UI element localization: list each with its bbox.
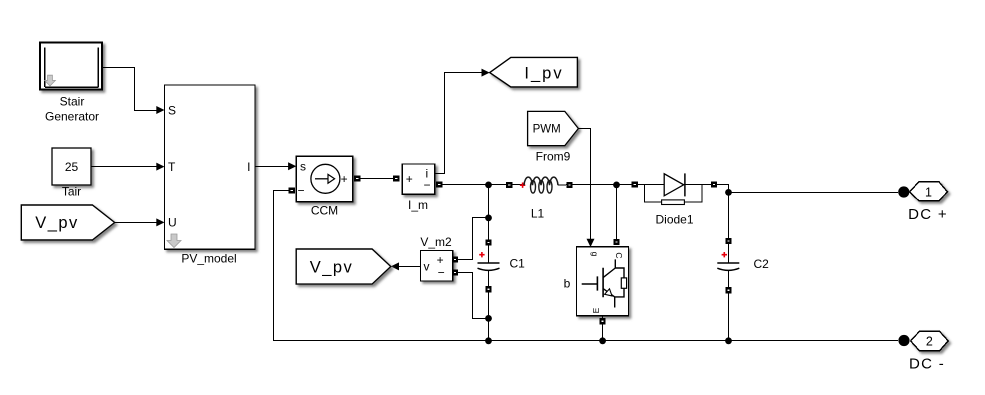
Goto tag V_pv xyxy=(296,249,391,284)
svg-text:DC +: DC + xyxy=(908,206,948,223)
red plus L1 xyxy=(520,183,525,188)
wire diode out, jog down to DC+ rail xyxy=(711,185,898,193)
node bus-C1 xyxy=(485,337,492,344)
wire IGBT collector to rail xyxy=(616,185,618,241)
svg-text:V_pv: V_pv xyxy=(310,258,354,276)
svg-text:−: − xyxy=(424,178,431,192)
svg-text:CCM: CCM xyxy=(311,203,338,217)
node bus-IGBT E xyxy=(599,337,606,344)
node bus-C2 xyxy=(725,337,732,344)
port squares xyxy=(289,175,732,324)
port square C1 top xyxy=(485,239,491,245)
block I_m (current measurement) xyxy=(402,164,434,194)
block IGBT xyxy=(577,247,629,316)
wire C1 column upper xyxy=(488,185,490,264)
svg-text:From9: From9 xyxy=(536,150,571,164)
svg-text:Generator: Generator xyxy=(45,110,99,124)
svg-text:DC -: DC - xyxy=(909,356,945,373)
capacitor C1 xyxy=(478,252,500,270)
port square C1 bottom xyxy=(485,286,491,292)
From tag PWM xyxy=(528,111,579,145)
port square V_m2 - xyxy=(452,269,458,275)
svg-text:PV_model: PV_model xyxy=(181,251,236,265)
connection port 1 DC+ xyxy=(898,182,947,201)
node rail-IGBT C xyxy=(613,182,620,189)
junction dots xyxy=(485,182,732,345)
svg-text:Diode1: Diode1 xyxy=(655,212,693,226)
block V_m2 (voltage measurement) xyxy=(421,251,453,282)
wire Tair to T xyxy=(91,166,157,168)
svg-text:+: + xyxy=(341,172,348,186)
svg-text:I_pv: I_pv xyxy=(524,65,563,83)
wire PWM to IGBT gate xyxy=(578,129,590,240)
wire IGBT emitter to bus xyxy=(602,316,604,341)
capacitor C2 xyxy=(717,252,739,270)
svg-text:1: 1 xyxy=(925,185,932,199)
port square L1 right xyxy=(566,182,572,188)
port square I_m + xyxy=(393,175,399,181)
svg-text:I_m: I_m xyxy=(408,198,428,212)
port square C2 top xyxy=(725,238,731,244)
svg-text:+: + xyxy=(406,172,413,186)
svg-text:U: U xyxy=(168,216,177,230)
svg-text:I: I xyxy=(247,160,250,174)
gray badge arrow on Stair Generator xyxy=(45,75,56,86)
port square CCM + xyxy=(354,175,360,181)
port square Diode1 left xyxy=(631,181,637,187)
wire Stair Generator to S xyxy=(102,68,157,111)
wire V_m2 - sense xyxy=(455,273,489,319)
block CCM (controlled current source) xyxy=(296,156,353,202)
svg-text:V_pv: V_pv xyxy=(35,214,79,232)
wire CCM - down-left to bottom bus, bus to DC- xyxy=(274,191,899,341)
svg-text:C: C xyxy=(614,252,624,258)
wire PV I output to CCM s xyxy=(255,166,289,168)
svg-text:−: − xyxy=(438,266,445,280)
block Stair Generator xyxy=(40,43,102,90)
wire V_m2 v output to V_pv goto xyxy=(399,266,421,268)
svg-text:T: T xyxy=(168,160,176,174)
port square CCM - xyxy=(289,187,295,193)
connection port 2 DC- xyxy=(898,331,948,351)
port square V_m2 + xyxy=(452,256,458,262)
svg-text:PWM: PWM xyxy=(533,124,561,136)
wire V_pv to U xyxy=(115,222,157,224)
wire CCM + to I_m + xyxy=(357,178,396,180)
svg-text:L1: L1 xyxy=(531,207,545,221)
port square C2 bottom xyxy=(725,287,731,293)
port square I_m - xyxy=(436,181,442,187)
svg-text:25: 25 xyxy=(65,160,79,174)
svg-text:s: s xyxy=(300,159,306,173)
node C1 sense + xyxy=(485,215,492,222)
svg-text:g: g xyxy=(590,252,600,257)
svg-text:E: E xyxy=(591,307,601,313)
From tag V_pv (input) xyxy=(21,205,114,240)
svg-text:v: v xyxy=(424,259,430,273)
wire C2 column upper xyxy=(728,193,730,264)
wire L1 right lead xyxy=(558,184,638,187)
block PV_model xyxy=(165,85,256,249)
port square IGBT C xyxy=(613,239,619,245)
wire C1 column lower xyxy=(488,271,490,341)
svg-text:Tair: Tair xyxy=(62,184,81,198)
svg-text:V_m2: V_m2 xyxy=(420,235,452,249)
node C1 sense - xyxy=(485,315,492,322)
node rail-C1 xyxy=(485,182,492,189)
port square Diode1 right xyxy=(711,181,717,187)
wire I_m i output up to I_pv xyxy=(435,73,482,174)
wire main rail I_m - to L1 xyxy=(439,184,524,186)
wire C2 column lower xyxy=(728,271,730,341)
svg-text:Stair: Stair xyxy=(60,95,85,109)
svg-text:2: 2 xyxy=(926,334,933,348)
svg-text:C1: C1 xyxy=(510,257,526,271)
gray badge arrow on PV_model xyxy=(167,234,181,248)
svg-text:−: − xyxy=(298,184,305,198)
wire V_m2 + sense xyxy=(455,218,489,260)
block Tair (constant 25) xyxy=(52,148,91,185)
node DC+ corner xyxy=(725,189,732,196)
svg-text:b: b xyxy=(564,277,571,291)
port square L1 left xyxy=(506,182,512,188)
svg-text:S: S xyxy=(168,103,176,117)
svg-text:C2: C2 xyxy=(754,257,770,271)
Goto tag I_pv xyxy=(490,57,578,87)
diode Diode1 xyxy=(638,173,711,204)
label Stair Generator xyxy=(45,95,99,124)
inductor L1 coil xyxy=(524,177,558,185)
port square IGBT E xyxy=(599,318,605,324)
